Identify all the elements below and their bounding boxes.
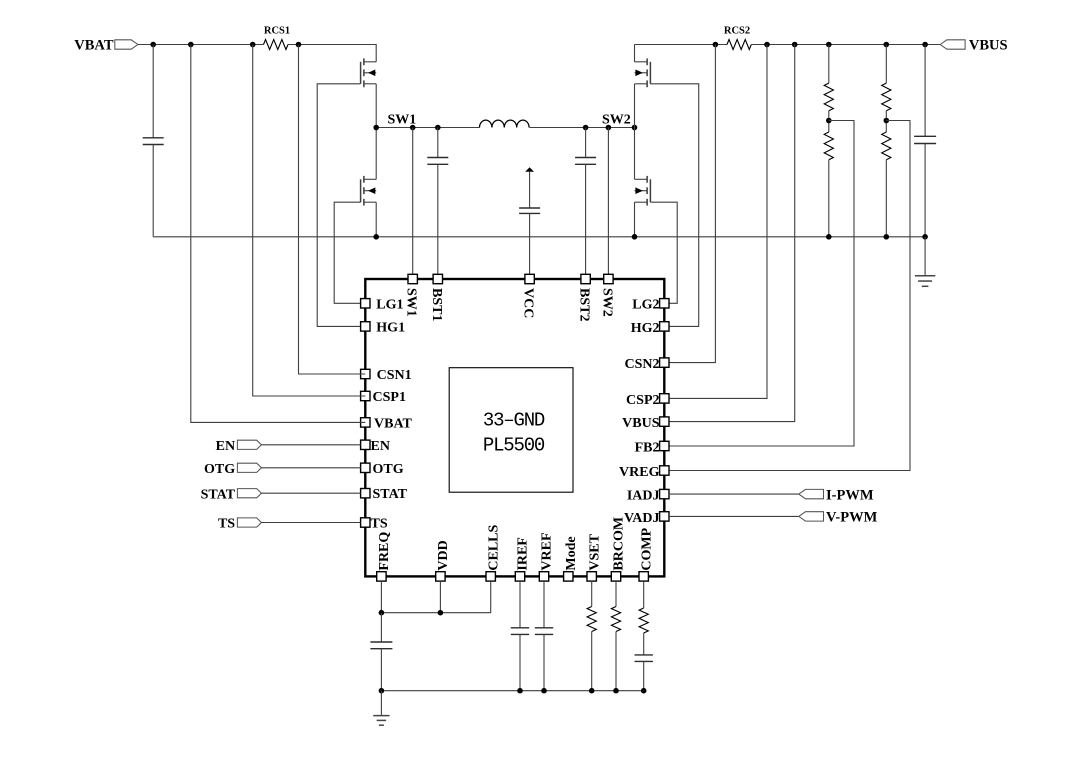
wire R-BRCOM bottom bbox=[615, 632, 617, 691]
svg-text:V-PWM: V-PWM bbox=[826, 510, 878, 526]
svg-text:COMP: COMP bbox=[639, 527, 654, 570]
pin SW2 (top edge) bbox=[604, 274, 613, 283]
svg-text:SW2: SW2 bbox=[602, 113, 631, 128]
junction VSET-AGND bbox=[589, 688, 595, 694]
wire PGND stem bbox=[924, 237, 926, 276]
wire VREF down bbox=[543, 581, 545, 628]
junction Q2-PGND bbox=[373, 234, 379, 240]
pin BST1 (top edge) bbox=[433, 274, 442, 283]
resistor R-VSET bbox=[587, 607, 596, 632]
pin BST2 (top edge) bbox=[581, 274, 590, 283]
svg-text:SW2: SW2 bbox=[599, 288, 614, 317]
wire R3 top lead bbox=[885, 45, 887, 84]
wire C3 top bbox=[924, 45, 926, 137]
junction divider2 top bbox=[884, 42, 890, 48]
capacitor C3 (VBUS) bbox=[914, 136, 936, 143]
capacitor C-VREF bbox=[535, 628, 553, 635]
wire HG1 net bbox=[317, 84, 365, 327]
resistor RCS1 bbox=[264, 40, 289, 50]
pin STAT (left edge) bbox=[361, 489, 370, 498]
svg-text:LG1: LG1 bbox=[376, 297, 403, 312]
connector OTG input bbox=[237, 463, 261, 472]
junction SW2-Q3Q4 bbox=[632, 125, 638, 131]
wire R1 top lead bbox=[828, 45, 830, 84]
wire R3-R4 middle bbox=[885, 111, 887, 132]
svg-text:I-PWM: I-PWM bbox=[826, 487, 874, 503]
connector VBUS bbox=[940, 40, 965, 49]
wire EN to pin bbox=[261, 444, 360, 446]
pin CELLS (bottom edge) bbox=[486, 572, 495, 581]
wire CSP1 net bbox=[253, 45, 366, 397]
pin VADJ (right edge) bbox=[660, 512, 669, 521]
junction divider1 top bbox=[826, 42, 832, 48]
pin SW1 (top edge) bbox=[408, 274, 417, 283]
wire R1-R2 middle bbox=[828, 111, 830, 132]
svg-text:VBAT: VBAT bbox=[74, 37, 114, 53]
wire Q1 source to SW1 bbox=[375, 84, 377, 128]
wire OTG to pin bbox=[261, 467, 360, 469]
svg-text:FB2: FB2 bbox=[635, 440, 660, 455]
IC U1 inner die box bbox=[449, 368, 573, 493]
transistor Q4 (low-side boost NFET) bbox=[635, 176, 651, 206]
connector STAT input bbox=[237, 489, 261, 498]
transistor Q1 (high-side buck NFET) bbox=[361, 58, 377, 87]
wire CSN2 net bbox=[664, 45, 715, 363]
pin CSP2 (right edge) bbox=[660, 394, 669, 403]
pin VBUS (right edge) bbox=[660, 417, 669, 426]
wire Q2 drain from SW1 bbox=[375, 128, 377, 180]
transistor Q2 (low-side buck NFET) bbox=[361, 176, 377, 206]
wire VDD down bbox=[439, 581, 441, 613]
capacitor C-IREF bbox=[511, 628, 529, 635]
pin EN (left edge) bbox=[361, 440, 370, 449]
junction R2-PGND bbox=[826, 234, 832, 240]
pin Mode (bottom edge) bbox=[564, 572, 573, 581]
svg-text:EN: EN bbox=[216, 439, 235, 454]
wire R4 bottom lead bbox=[885, 160, 887, 237]
svg-text:CSN1: CSN1 bbox=[377, 368, 412, 383]
pin HG2 (right edge) bbox=[660, 322, 669, 331]
wire C-FREQ bottom bbox=[380, 649, 382, 691]
svg-text:VBUS: VBUS bbox=[622, 416, 660, 431]
junction C3-PGND bbox=[922, 234, 928, 240]
junction VBUS-pin tap bbox=[792, 42, 798, 48]
wire FREQ-VDD-CELLS link bbox=[381, 581, 490, 613]
junction CSP2 tap bbox=[764, 42, 770, 48]
wire BST2 line bottom bbox=[585, 164, 587, 274]
svg-text:VREF: VREF bbox=[540, 532, 555, 570]
junction VDD link bbox=[438, 610, 444, 616]
svg-text:BST2: BST2 bbox=[577, 288, 592, 321]
junction RCS1 right / CSN1 bbox=[296, 42, 302, 48]
pin CSN2 (right edge) bbox=[660, 358, 669, 367]
svg-text:HG1: HG1 bbox=[376, 320, 405, 335]
wire HG2 net bbox=[650, 84, 698, 327]
wire SW2 rail bbox=[530, 127, 635, 129]
pin HG1 (left edge) bbox=[361, 322, 370, 331]
junction SW1-pin line bbox=[410, 125, 416, 131]
wire VBUS rail right bbox=[751, 44, 940, 46]
svg-text:VBUS: VBUS bbox=[969, 37, 1008, 53]
wire BST2 line top bbox=[585, 128, 587, 158]
junction VBAT-C1 bbox=[150, 42, 156, 48]
svg-text:SW1: SW1 bbox=[404, 288, 419, 317]
pin VREG (right edge) bbox=[660, 466, 669, 475]
junction RCS1 left / CSP1 bbox=[250, 42, 256, 48]
pin CSP1 (left edge) bbox=[361, 391, 370, 400]
pin VSET (bottom edge) bbox=[587, 572, 596, 581]
wire C3 bottom bbox=[924, 144, 926, 237]
resistor RCS2 bbox=[727, 40, 751, 50]
pin COMP (bottom edge) bbox=[639, 572, 648, 581]
junction R4-PGND bbox=[884, 234, 890, 240]
wire SW2 pin line bbox=[607, 128, 609, 275]
resistor R1 (VBUS divider top) bbox=[824, 83, 833, 111]
pin OTG (left edge) bbox=[361, 463, 370, 472]
svg-text:IADJ: IADJ bbox=[627, 489, 660, 504]
svg-text:CSP1: CSP1 bbox=[373, 390, 406, 405]
capacitor C-COMP bbox=[635, 655, 653, 662]
junction Q4-PGND bbox=[632, 234, 638, 240]
wire CSN1 net bbox=[299, 45, 366, 375]
junction FB2 tap bbox=[826, 118, 832, 124]
wire Q2 source to PGND bbox=[375, 202, 377, 237]
wire STAT to pin bbox=[261, 492, 360, 494]
IC U1 PL5500 body bbox=[365, 279, 664, 576]
wire VBUS pin net bbox=[664, 45, 794, 422]
svg-text:CSN2: CSN2 bbox=[624, 357, 659, 372]
svg-text:PL5500: PL5500 bbox=[483, 434, 545, 456]
transistor Q3 (high-side boost NFET) bbox=[635, 58, 651, 87]
resistor R3 (VREG divider top) bbox=[882, 83, 891, 111]
pin VCC (top edge) bbox=[525, 274, 534, 283]
svg-text:33–GND: 33–GND bbox=[483, 410, 545, 432]
junction SW1-BST1 bbox=[435, 125, 441, 131]
svg-text:LG2: LG2 bbox=[632, 298, 659, 313]
wire AGND bus bbox=[381, 690, 643, 692]
pin IREF (bottom edge) bbox=[515, 572, 524, 581]
pin LG2 (right edge) bbox=[660, 299, 669, 308]
wire C1 top bbox=[152, 45, 154, 138]
junction COMP-AGND bbox=[641, 688, 647, 694]
wire R2 bottom lead bbox=[828, 160, 830, 237]
wire AGND stem bbox=[380, 691, 382, 716]
svg-text:VDD: VDD bbox=[436, 540, 451, 570]
wire Q3 source to SW2 bbox=[634, 84, 636, 128]
svg-text:EN: EN bbox=[371, 439, 390, 454]
junction VBAT-pin line bbox=[188, 42, 194, 48]
wire BST1 line top bbox=[437, 128, 439, 158]
wire VBAT rail right + Q1 drain bbox=[288, 45, 376, 62]
junction BRCOM-AGND bbox=[613, 688, 619, 694]
ground AGND bbox=[373, 716, 389, 726]
wire C1 bottom bbox=[152, 145, 154, 237]
wire FREQ down bbox=[380, 581, 382, 613]
junction FREQ-AGND bbox=[379, 688, 385, 694]
pin VREF (bottom edge) bbox=[539, 572, 548, 581]
resistor R-COMP bbox=[639, 608, 648, 633]
wire C-IREF bottom bbox=[519, 634, 521, 690]
ground PGND bbox=[915, 276, 935, 287]
wire FB2 net bbox=[664, 121, 854, 447]
capacitor C-FREQ bbox=[370, 642, 392, 649]
wire VBAT pin net bbox=[191, 45, 365, 423]
inductor L1 bbox=[480, 120, 530, 127]
wire C-VREF bottom bbox=[543, 634, 545, 690]
svg-text:CSP2: CSP2 bbox=[626, 393, 659, 408]
wire R-VSET bottom bbox=[591, 632, 593, 691]
connector I-PWM bbox=[799, 489, 824, 498]
junction IREF-AGND bbox=[517, 688, 523, 694]
junction VREG tap bbox=[884, 118, 890, 124]
wire VBUS rail left bbox=[635, 44, 728, 46]
svg-text:RCS2: RCS2 bbox=[724, 26, 750, 37]
junction SW2-pin line bbox=[606, 125, 612, 131]
junction FREQ link bbox=[379, 610, 385, 616]
wire CSP2 net bbox=[664, 45, 767, 399]
svg-text:VREG: VREG bbox=[619, 465, 660, 480]
pin CSN1 (left edge) bbox=[361, 369, 370, 378]
wire VCC line bottom bbox=[529, 213, 531, 274]
pin VBAT (left edge) bbox=[361, 418, 370, 427]
wire LG1 net bbox=[334, 202, 365, 303]
svg-text:VCC: VCC bbox=[521, 288, 536, 318]
svg-text:TS: TS bbox=[218, 517, 235, 532]
connector VBAT bbox=[115, 40, 138, 49]
svg-text:IREF: IREF bbox=[516, 537, 531, 570]
capacitor C-BST2 bbox=[575, 158, 596, 165]
wire SW1 pin line bbox=[412, 128, 414, 275]
pin FREQ (bottom edge) bbox=[377, 572, 386, 581]
svg-text:VSET: VSET bbox=[587, 533, 602, 570]
resistor R-BRCOM bbox=[611, 607, 620, 632]
pin VDD (bottom edge) bbox=[436, 572, 445, 581]
wire BST1 line bottom bbox=[437, 164, 439, 274]
wire COMP down bbox=[643, 581, 645, 608]
wire Q4 drain from SW2 bbox=[634, 128, 636, 180]
wire C-COMP bottom bbox=[643, 661, 645, 690]
wire BRCOM down bbox=[615, 581, 617, 606]
wire LG2 net bbox=[650, 202, 677, 303]
wire VADJ to V-PWM bbox=[669, 515, 799, 517]
wire Q4 source to PGND bbox=[634, 202, 636, 237]
pin TS (left edge) bbox=[361, 518, 370, 527]
svg-text:FREQ: FREQ bbox=[377, 532, 392, 571]
svg-text:STAT: STAT bbox=[201, 487, 236, 502]
svg-text:CELLS: CELLS bbox=[486, 524, 501, 570]
junction SW1-Q1Q2 bbox=[373, 125, 379, 131]
capacitor C-BST1 bbox=[427, 158, 448, 165]
wire SW1 rail bbox=[376, 127, 479, 129]
svg-text:HG2: HG2 bbox=[631, 321, 660, 336]
svg-text:VBAT: VBAT bbox=[374, 416, 413, 431]
pin FB2 (right edge) bbox=[660, 441, 669, 450]
wire IADJ to I-PWM bbox=[669, 493, 799, 495]
pin BRCOM (bottom edge) bbox=[611, 572, 620, 581]
svg-text:TS: TS bbox=[371, 517, 388, 532]
capacitor C1 bbox=[143, 138, 164, 145]
wire PGND bus bbox=[153, 236, 925, 238]
wire VREG net bbox=[664, 121, 910, 471]
capacitor C-VCC bbox=[519, 208, 540, 213]
junction VREF-AGND bbox=[541, 688, 547, 694]
junction C3 top bbox=[922, 42, 928, 48]
svg-text:BST1: BST1 bbox=[429, 288, 444, 321]
svg-text:BRCOM: BRCOM bbox=[612, 517, 627, 571]
wire VBAT rail left bbox=[138, 44, 264, 46]
wire R-COMP to cap bbox=[643, 633, 645, 655]
svg-text:VADJ: VADJ bbox=[624, 511, 660, 526]
svg-text:Mode: Mode bbox=[564, 536, 579, 570]
connector V-PWM bbox=[799, 512, 824, 521]
svg-text:RCS1: RCS1 bbox=[264, 26, 290, 37]
junction CSN2 tap bbox=[713, 42, 719, 48]
VCC supply arrow bbox=[525, 167, 534, 172]
svg-text:OTG: OTG bbox=[204, 462, 235, 477]
wire TS to pin bbox=[261, 522, 360, 524]
wire Q3 drain from VBUS rail bbox=[634, 45, 636, 62]
svg-text:OTG: OTG bbox=[373, 462, 404, 477]
junction SW2-BST2 bbox=[583, 125, 589, 131]
connector TS input bbox=[237, 518, 261, 527]
connector EN input bbox=[237, 440, 261, 449]
pin IADJ (right edge) bbox=[660, 489, 669, 498]
wire VCC line top bbox=[529, 172, 531, 208]
wire C-FREQ top bbox=[380, 613, 382, 642]
resistor R4 (VREG divider bottom) bbox=[882, 132, 891, 160]
wire VSET down bbox=[591, 581, 593, 606]
pin LG1 (left edge) bbox=[361, 299, 370, 308]
resistor R2 (VBUS divider bottom) bbox=[824, 132, 833, 160]
wire IREF down bbox=[519, 581, 521, 628]
svg-text:STAT: STAT bbox=[373, 487, 408, 502]
